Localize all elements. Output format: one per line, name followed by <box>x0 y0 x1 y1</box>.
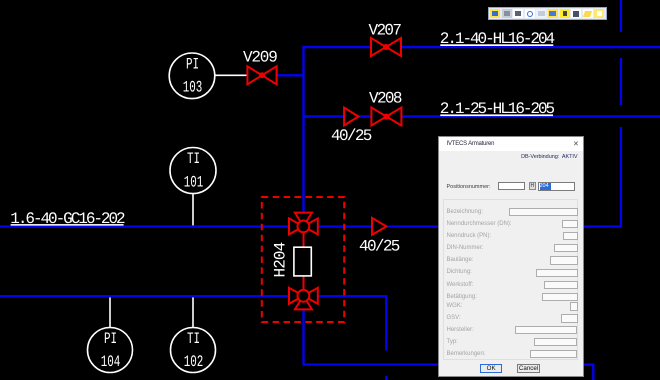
svg-text:V209: V209 <box>243 49 277 67</box>
svg-text:101: 101 <box>184 173 204 191</box>
valve V208 <box>371 108 401 126</box>
svg-text:TI: TI <box>187 330 200 348</box>
valve H204 top three-way <box>289 213 318 235</box>
instrument TI101 <box>170 148 216 194</box>
pipe line C 1.6-40-GC16-202 with corner up at right <box>0 127 621 227</box>
status text <box>521 154 577 160</box>
valve V209 <box>247 66 276 84</box>
button Cancel <box>517 364 540 373</box>
pipe line D with corner down at x=386 <box>0 296 386 350</box>
reducer 40/25 on line C <box>372 218 386 235</box>
button OK <box>480 364 503 374</box>
pipe line A 2.1-40-HL16-204 with corner down to vertical riser <box>304 47 660 215</box>
svg-text:103: 103 <box>183 79 203 97</box>
pipe line B 2.1-25-HL16-205 <box>304 115 660 117</box>
svg-text:40/25: 40/25 <box>331 127 372 145</box>
actuator body H204 <box>294 247 311 276</box>
instrument TI102 <box>171 328 216 373</box>
title bar <box>439 137 583 152</box>
valve H204 bottom three-way <box>289 288 318 310</box>
valve V207 <box>371 38 401 56</box>
wire right riser upper segments <box>620 0 622 105</box>
instrument PI103 <box>169 53 215 99</box>
wire red actuator stem <box>303 226 305 295</box>
floating mini toolbar <box>488 7 607 20</box>
wire white PI103 to V209 <box>215 74 247 76</box>
instrument PI104 <box>88 328 133 373</box>
pipe line E bottom with corner down at x=593 <box>304 309 594 380</box>
svg-text:102: 102 <box>184 353 204 371</box>
dialog IVTECS Armaturen <box>438 136 584 377</box>
wire white TI102 stub <box>192 297 194 327</box>
svg-text:40/25: 40/25 <box>359 238 400 256</box>
svg-text:V208: V208 <box>369 90 402 108</box>
svg-text:PI: PI <box>104 330 117 348</box>
svg-text:104: 104 <box>101 353 121 371</box>
svg-text:TI: TI <box>187 150 200 168</box>
wire white TI101 stub <box>192 194 194 226</box>
svg-text:V207: V207 <box>369 22 402 40</box>
dashed enclosure H204 <box>262 197 344 322</box>
disabled fields <box>447 209 483 215</box>
wire white PI104 stub <box>109 297 111 327</box>
reducer 40/25 on line B <box>344 108 358 126</box>
close button <box>573 140 579 148</box>
wire stub bottom of x=386 riser <box>385 376 387 380</box>
group box frame <box>443 199 578 360</box>
svg-text:PI: PI <box>186 55 199 73</box>
wire blue stub V209 to riser <box>276 74 304 76</box>
svg-text:H204: H204 <box>272 242 290 277</box>
field Positionsnummer <box>447 184 491 190</box>
